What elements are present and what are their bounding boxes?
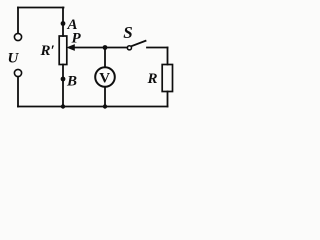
node B junction dot [61,77,66,82]
wire rheostat top vertical [62,8,64,37]
svg-text:V: V [99,71,110,87]
wire right vertical lower [167,92,169,107]
svg-text:P: P [72,31,82,47]
switch S contact circle [127,46,131,50]
wire left upper vertical [17,8,19,34]
voltmeter V circle [95,67,115,87]
wire bottom horizontal [18,106,168,108]
svg-text:B: B [66,74,77,90]
wire left lower vertical [17,77,19,107]
wire rheostat bottom vertical [62,65,64,107]
svg-text:R′: R′ [40,43,55,59]
wire right vertical upper [167,48,169,65]
wire voltmeter lower vertical [104,87,106,107]
switch S blade [131,41,145,46]
rheostat R' body [59,36,67,65]
battery terminal lower (U) [14,69,21,76]
resistor R body [162,65,172,92]
wire voltmeter upper vertical [104,48,106,68]
battery terminal upper (U) [14,33,21,40]
wiper arrowhead P [66,44,75,51]
junction dot wiper/voltmeter [103,45,108,50]
junction dot voltmeter/bottom wire [103,104,107,108]
wire wiper shaft P [73,47,127,49]
svg-text:U: U [8,51,20,67]
svg-text:S: S [123,23,132,42]
wire switch to right corner [147,47,168,49]
node A junction dot [61,21,66,26]
wire top horizontal [18,7,64,9]
junction dot rheostat/bottom wire [61,104,65,108]
svg-text:R: R [147,71,158,87]
